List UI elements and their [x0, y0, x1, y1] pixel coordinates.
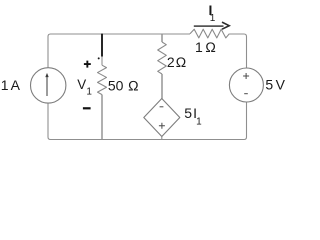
resistor R 50ohm zigzag — [98, 65, 107, 94]
voltage source plus sign — [243, 73, 249, 79]
svg-text:Ω: Ω — [128, 77, 139, 93]
dependent source minus sign — [160, 106, 164, 108]
svg-text:Ω: Ω — [176, 54, 187, 70]
svg-text:2: 2 — [167, 54, 175, 70]
wire right rail lower — [244, 102, 247, 140]
node dot left of 50ohm resistor top — [98, 57, 100, 59]
wire 50ohm branch lower — [101, 95, 103, 140]
svg-text:A: A — [11, 77, 21, 93]
wire bottom rail — [51, 139, 245, 141]
wire 2ohm branch to dependent source — [161, 74, 163, 99]
svg-text:1: 1 — [210, 13, 216, 24]
svg-text:1: 1 — [195, 39, 203, 55]
current arrow I1 head — [222, 22, 229, 29]
label V1 plus — [84, 61, 91, 68]
svg-text:50: 50 — [108, 77, 124, 93]
svg-text:5: 5 — [265, 77, 273, 93]
svg-text:1: 1 — [1, 77, 9, 93]
svg-text:1: 1 — [86, 87, 92, 98]
wire black stub above 50ohm resistor — [101, 34, 103, 57]
wire left rail upper — [47, 37, 49, 68]
svg-text:V: V — [276, 77, 286, 93]
current source arrow — [46, 77, 48, 96]
label V1 minus — [83, 107, 91, 109]
svg-text:1: 1 — [196, 117, 202, 128]
wire right rail upper — [246, 37, 248, 69]
wire top rail — [48, 34, 190, 37]
wire 50ohm branch mid — [101, 57, 103, 66]
wire diamond to bottom rail — [161, 137, 163, 140]
resistor R 1ohm zigzag — [190, 29, 229, 38]
wire 2ohm branch upper — [161, 34, 163, 42]
voltage source 5V circle — [229, 68, 263, 102]
dependent source plus sign — [159, 123, 165, 129]
resistor R 2ohm zigzag — [158, 42, 167, 74]
wire left rail lower — [48, 103, 51, 139]
wire top rail right segment — [229, 34, 246, 37]
current source I=1A circle — [31, 68, 66, 103]
dependent source 5I1 diamond — [144, 99, 180, 137]
svg-text:Ω: Ω — [205, 39, 216, 55]
svg-text:V: V — [77, 77, 86, 92]
current arrow I1 line — [194, 25, 224, 27]
voltage source minus sign — [244, 93, 248, 95]
